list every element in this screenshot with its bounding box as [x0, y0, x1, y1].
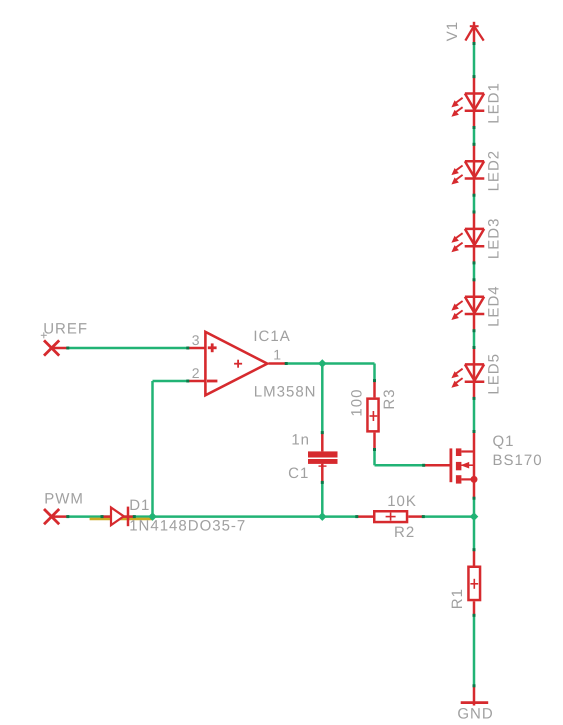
ground	[461, 686, 489, 706]
wire	[321, 364, 324, 433]
resistor R1	[468, 550, 480, 616]
wire	[473, 263, 476, 280]
LED LED3	[451, 212, 484, 263]
svg-text:10K: 10K	[387, 493, 417, 510]
svg-text:LED2: LED2	[485, 150, 502, 192]
wire	[321, 482, 324, 516]
pin endpoint dots	[66, 42, 475, 687]
svg-text:BS170: BS170	[493, 452, 543, 469]
svg-text:C1: C1	[288, 465, 309, 482]
svg-text:R2: R2	[394, 524, 415, 541]
wire	[52, 347, 68, 350]
wire	[68, 347, 188, 350]
svg-text:LED3: LED3	[485, 218, 502, 260]
svg-text:IC1A: IC1A	[253, 328, 290, 345]
svg-text:2: 2	[192, 365, 200, 381]
supply V1	[465, 22, 483, 44]
svg-text:LED5: LED5	[485, 353, 502, 395]
wire	[375, 464, 424, 467]
wire	[373, 364, 376, 381]
wire	[473, 195, 476, 212]
svg-text:LED4: LED4	[485, 285, 502, 327]
LED LED4	[451, 280, 484, 331]
wire	[151, 381, 154, 517]
svg-text:PWM: PWM	[44, 491, 84, 508]
wire	[373, 450, 376, 466]
svg-text:V1: V1	[444, 21, 461, 41]
overlap highlight	[90, 518, 153, 521]
wire	[52, 515, 68, 518]
svg-text:Q1: Q1	[493, 433, 515, 450]
junction	[318, 512, 327, 521]
svg-text:GND: GND	[457, 706, 493, 723]
LED LED5	[451, 348, 484, 399]
junction	[318, 359, 327, 368]
svg-text:LED1: LED1	[485, 82, 502, 124]
svg-text:UREF: UREF	[43, 321, 88, 338]
LED LED2	[451, 144, 484, 195]
wire	[473, 128, 476, 145]
resistor R3	[367, 381, 378, 450]
svg-text:D1: D1	[129, 497, 150, 514]
wire	[473, 517, 476, 550]
svg-text:3: 3	[192, 332, 200, 348]
pin UREF	[44, 340, 59, 355]
junction	[148, 512, 157, 521]
op-amp IC1A	[188, 332, 286, 395]
wire	[286, 362, 374, 365]
wire	[423, 515, 474, 518]
wire	[68, 515, 357, 518]
wire	[473, 615, 476, 686]
LED LED1	[451, 77, 484, 128]
wire	[153, 380, 188, 383]
wire	[473, 331, 476, 348]
wire	[473, 398, 476, 431]
svg-text:R1: R1	[449, 588, 466, 609]
svg-text:100: 100	[348, 389, 365, 417]
svg-text:R3: R3	[381, 388, 398, 409]
wire	[473, 498, 476, 516]
diode D1	[102, 507, 134, 527]
pin PWM	[44, 509, 59, 524]
resistor R2	[357, 511, 424, 522]
text origin cross	[41, 332, 47, 338]
capacitor C1	[308, 433, 338, 483]
svg-text:LM358N: LM358N	[254, 384, 317, 401]
svg-text:1n: 1n	[291, 432, 310, 449]
svg-text:1: 1	[273, 347, 281, 363]
transistor Q1	[424, 432, 478, 499]
junction	[470, 512, 479, 521]
svg-text:1N4148DO35-7: 1N4148DO35-7	[129, 518, 246, 535]
wire	[473, 44, 476, 77]
